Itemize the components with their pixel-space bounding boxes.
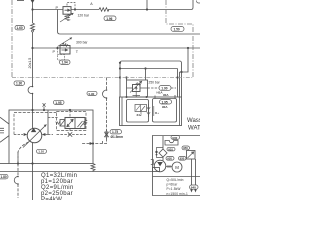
component: spring connection to tank pipe <box>91 164 95 172</box>
wire: drain dashed from 250bar box <box>148 87 177 89</box>
svg-text:Wasser: Wasser <box>187 118 200 124</box>
label: water pump data text <box>167 178 188 196</box>
node: junction at x147 <box>146 8 148 10</box>
label: tag oval 1.96 on A line <box>104 16 116 21</box>
wire: top supply entering from top edge <box>31 0 35 23</box>
svg-text:90A: 90A <box>163 93 169 97</box>
svg-text:M+: M+ <box>155 111 159 115</box>
motor M1: electric motor <box>172 162 182 172</box>
label: tag oval 1.30 on boundary <box>14 81 25 86</box>
node: A-port junction <box>74 8 76 10</box>
wire: water supply line y61 <box>122 61 182 97</box>
wire: pilot from box top into valve (dashed) <box>69 110 71 118</box>
svg-text:1.95: 1.95 <box>55 101 61 105</box>
component: coil symbol on A line <box>99 8 109 12</box>
label: main data text block <box>41 173 77 203</box>
label: tag oval 1.75 for orifice <box>110 130 123 139</box>
node: junction x188 on y48 <box>187 47 189 49</box>
component: suction filter diamond with bypass <box>155 148 167 162</box>
svg-text:920: 920 <box>167 157 172 161</box>
svg-text:1.50: 1.50 <box>174 27 180 31</box>
wire: pump outlet into main vertical <box>32 124 34 129</box>
wire: P line to reducing valve <box>33 9 64 11</box>
node: dot at 126.5,97 <box>126 96 128 98</box>
svg-text:WATER: WATER <box>188 126 200 132</box>
label: tag oval 0.90 left of drain hose <box>87 91 97 96</box>
component: damper coil on main pressure line <box>31 23 35 32</box>
component: orifice 1.5mm <box>104 130 109 140</box>
wire: pilot dashed from orifice to valve box <box>81 139 107 144</box>
wire: tank manifold line y164.5 <box>0 163 9 165</box>
svg-text:n=1500 min-1: n=1500 min-1 <box>167 192 188 196</box>
svg-text:250 bar: 250 bar <box>149 80 161 84</box>
component: hose on main line <box>28 86 33 95</box>
wire: relief line y48 from main line to right edge <box>33 47 201 49</box>
wire: drain line x18 lower with hose <box>14 152 19 198</box>
wire: shaft pump-motor <box>166 165 172 168</box>
component: sub box A with solenoid valve <box>127 100 149 123</box>
svg-text:20x1.5: 20x1.5 <box>28 58 32 69</box>
svg-text:90A: 90A <box>162 105 168 109</box>
component: cooler <box>187 151 196 160</box>
svg-text:930: 930 <box>180 157 185 161</box>
svg-text:940: 940 <box>191 186 196 190</box>
svg-text:900: 900 <box>172 136 177 140</box>
label: tag oval 1.60 next to coil <box>15 26 25 31</box>
wire: branch up to top edge at x147 <box>146 0 148 10</box>
node: boundary crossing dots on y77.5 <box>119 76 179 78</box>
boundary: dash-dot top right notch <box>166 0 193 78</box>
component: sub box B pump unit <box>147 99 177 123</box>
svg-text:T: T <box>76 50 79 54</box>
wire: case drain curve to x18 <box>18 142 29 164</box>
wire: suction pipe y171.5 to water tank <box>0 171 153 173</box>
svg-text:300 bar: 300 bar <box>76 41 88 45</box>
wire: feed stub to 250bar box <box>126 78 128 81</box>
wire: main pressure line vertical x32.5 <box>32 32 34 200</box>
wire: feed drop to 250bar box <box>119 62 147 80</box>
svg-text:Ø1.5mm: Ø1.5mm <box>111 135 124 139</box>
enclosure: water unit outer box <box>120 97 182 126</box>
pump P1: variable displacement pump <box>23 125 47 148</box>
svg-text:1.10: 1.10 <box>38 150 44 154</box>
svg-text:0.90: 0.90 <box>89 92 95 96</box>
enclosure: power unit solid box <box>9 110 93 164</box>
node: dot 120,68.5 <box>119 67 121 69</box>
component: level gauge on wall <box>151 160 154 165</box>
component: hose on drain line <box>103 89 108 99</box>
valve V4: relief 250 bar in sub box <box>127 80 148 97</box>
label: tag oval 930 <box>179 157 187 161</box>
svg-text:910: 910 <box>168 147 173 151</box>
boundary: dashed box of valve compartment <box>57 112 87 131</box>
boundary: dashed pilot group box <box>14 113 57 135</box>
component: motor coupling at left edge <box>0 117 9 142</box>
wire: corner down at x120 <box>120 61 122 97</box>
svg-text:P: P <box>53 50 56 54</box>
node: junction main line / reducer P line <box>31 8 33 10</box>
svg-text:120 bar: 120 bar <box>78 14 90 18</box>
svg-text:1.30: 1.30 <box>16 82 22 86</box>
enclosure: water tank box <box>153 136 201 196</box>
node: pilot crossing box edge <box>92 142 94 144</box>
node: dot at 70,110 <box>69 109 71 111</box>
svg-text:1.75: 1.75 <box>112 130 118 134</box>
svg-text:P=1.5kW: P=1.5kW <box>167 187 181 191</box>
boundary: dash-dot bottom y77.5 <box>12 77 193 79</box>
node: ticks into box top <box>146 95 176 99</box>
svg-text:1.94: 1.94 <box>62 61 68 65</box>
wire: filter feed line <box>162 136 164 149</box>
svg-text:1.80: 1.80 <box>1 175 7 179</box>
label: tag oval 900 on tank top <box>171 135 180 139</box>
valve V1: pressure reducing valve 120 bar <box>60 7 74 22</box>
wire: cooling water pipes with arrows <box>190 159 197 193</box>
wire: branch y68.5 <box>120 69 178 98</box>
wire: x179.5 drop from y72 <box>179 72 181 97</box>
wire: internal divider line <box>153 176 201 178</box>
svg-text:950: 950 <box>183 146 188 150</box>
label: tag oval fragment top right corner <box>197 1 201 4</box>
label: tag oval 1.95 near test port <box>54 100 65 105</box>
wire: drain of V1 down and right along y34 <box>58 10 201 35</box>
wire: pilot line of V1 (dashed) <box>67 3 75 10</box>
svg-text:p=6bar: p=6bar <box>167 183 179 187</box>
label: tag oval 1.94 below V2 <box>60 60 71 65</box>
node: crossing dot at 181.5,72 <box>180 71 182 73</box>
svg-text:24v: 24v <box>137 113 142 117</box>
node: dots on manifold <box>17 162 34 164</box>
node: junction main line on box top <box>31 109 33 111</box>
component: arrowhead on pilot at x93 <box>90 142 94 145</box>
label: Wasser / WATER <box>187 118 210 132</box>
wire: drain dashed x106.5 down from boundary <box>106 78 108 132</box>
svg-text:A: A <box>90 2 93 6</box>
component: plugged test port X <box>43 103 46 111</box>
label: tag oval 910 <box>167 147 175 151</box>
label: tag oval 940 on water pipes <box>190 185 199 190</box>
boundary: machine enclosure dash-dot left x12 <box>11 0 13 78</box>
wire: jog from y48 down to y72 <box>180 48 189 72</box>
wire: stub at top left edge <box>17 0 24 2</box>
label: tag oval 950 <box>182 146 190 150</box>
svg-text:M: M <box>175 165 179 170</box>
wire: A line going right <box>71 9 99 11</box>
svg-text:P=4kW: P=4kW <box>41 197 62 200</box>
label: tag oval 1.80 bottom left <box>0 174 8 179</box>
label: tag oval 1.50 right <box>171 27 184 32</box>
component: breather with notch <box>165 141 178 146</box>
svg-text:1.60: 1.60 <box>17 26 23 30</box>
svg-text:1.95: 1.95 <box>162 100 168 104</box>
svg-text:Q=50L/min: Q=50L/min <box>167 178 184 182</box>
component: left control port arrow <box>14 133 27 136</box>
node: junction main/relief <box>31 47 33 49</box>
component: right control port arrow fed from x48 <box>42 110 53 136</box>
label: tag oval 1.10 for pump <box>37 149 47 153</box>
wire: A line continues to right corner and exits top <box>108 0 193 10</box>
component: flange at tank inlet <box>153 168 160 172</box>
wire: pilot dashed segment to solenoid <box>48 117 58 119</box>
label: tag oval 920 <box>166 157 174 161</box>
pump P2: water pump circle <box>154 160 166 172</box>
valve V3: solenoid directional valve W <box>60 118 87 129</box>
component: plugged port X under valve <box>57 129 87 137</box>
valve V2: pressure relief 300 bar <box>56 38 72 61</box>
svg-text:1.96: 1.96 <box>106 17 112 21</box>
label: tag oval 1.90 drain flag <box>157 86 172 95</box>
